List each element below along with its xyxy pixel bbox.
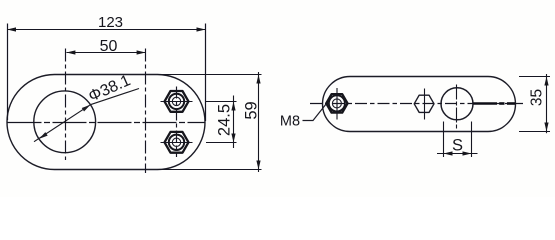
label 24.5 [216,104,234,136]
svg-text:35: 35 [529,89,546,106]
M8 leader line [303,104,327,121]
M8 tapped hole (hex + circles) [326,88,347,120]
part outline right view (side stadium body) [323,77,516,132]
dimension 123 [7,24,206,122]
svg-text:M8: M8 [280,113,300,129]
label 35 [529,89,546,106]
bolt axis centerline [176,87,178,158]
svg-text:S: S [452,137,463,155]
diameter line D38.1 [34,89,139,142]
svg-text:59: 59 [243,101,261,119]
svg-text:50: 50 [100,38,118,55]
bore hole D38.1 (large circle) [34,91,96,153]
part outline left view (stadium body) [7,75,205,170]
dimension 24.5 [206,96,237,149]
dimension 50 [66,50,145,54]
clamp screw circle S [441,85,473,131]
svg-text:123: 123 [98,14,123,31]
svg-text:24.5: 24.5 [216,104,234,136]
horizontal centerline left view [8,122,206,124]
dimension 59 [158,72,262,172]
label D38.1 [86,72,133,105]
dimension 35 [519,74,550,133]
label 59 [243,101,261,119]
main horizontal centerline right view [310,103,523,105]
dimension S [437,122,478,158]
bolt B1 (upper clamp screw, hex + circles) [161,91,193,112]
slit (saw cut) thick line [473,102,515,105]
hex bolt head side position (middle hexagon) [414,89,434,120]
vertical centerline of bore [65,49,67,161]
vertical centerline at 50mm [145,49,147,174]
bolt B2 (lower clamp screw, hex + circles) [161,132,193,153]
